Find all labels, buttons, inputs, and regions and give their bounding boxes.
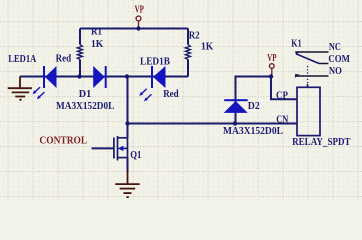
svg-text:LED1A: LED1A bbox=[8, 54, 36, 65]
svg-text:NO: NO bbox=[329, 66, 342, 77]
svg-text:MA3X152D0L: MA3X152D0L bbox=[56, 101, 114, 112]
svg-text:1K: 1K bbox=[201, 42, 214, 53]
svg-text:D1: D1 bbox=[79, 89, 92, 100]
svg-text:VP: VP bbox=[135, 4, 145, 15]
svg-text:Q1: Q1 bbox=[130, 150, 141, 161]
svg-text:CP: CP bbox=[276, 90, 288, 101]
svg-text:Red: Red bbox=[56, 54, 72, 65]
svg-text:CONTROL: CONTROL bbox=[39, 136, 87, 147]
svg-text:LED1B: LED1B bbox=[140, 57, 170, 68]
svg-text:R2: R2 bbox=[189, 31, 200, 42]
svg-text:CN: CN bbox=[276, 114, 288, 125]
svg-text:Red: Red bbox=[163, 89, 179, 100]
svg-text:MA3X152D0L: MA3X152D0L bbox=[223, 126, 283, 137]
svg-text:1K: 1K bbox=[91, 39, 104, 50]
svg-text:D2: D2 bbox=[248, 101, 260, 112]
svg-text:COM: COM bbox=[328, 54, 350, 65]
svg-text:RELAY_SPDT: RELAY_SPDT bbox=[292, 137, 351, 148]
svg-text:NC: NC bbox=[329, 42, 341, 53]
svg-text:K1: K1 bbox=[291, 39, 301, 50]
svg-text:R1: R1 bbox=[91, 27, 102, 38]
svg-text:VP: VP bbox=[267, 53, 277, 64]
